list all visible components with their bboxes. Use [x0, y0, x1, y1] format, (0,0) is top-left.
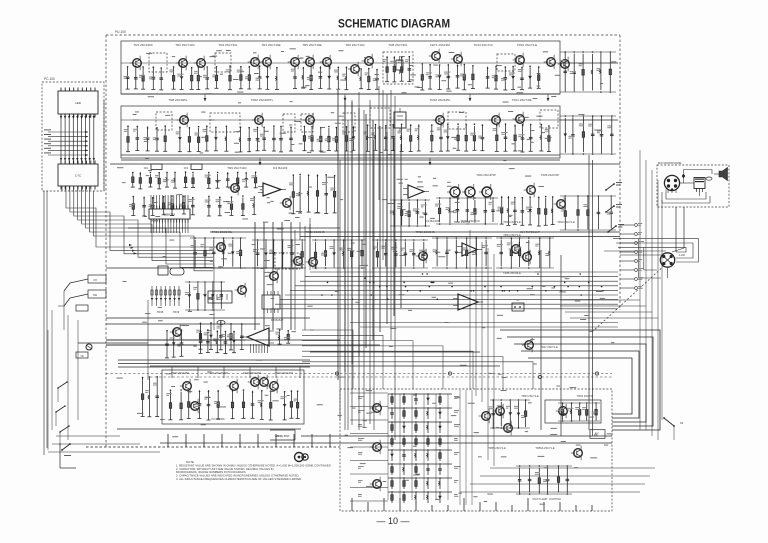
squelch bank 5: [432, 237, 492, 269]
transistor Q-mix3: [479, 184, 492, 200]
VR trimmer box lower: [76, 305, 88, 311]
transistor Q-if5: [489, 113, 501, 128]
meter lamp L1: [86, 344, 92, 350]
svg-text:TR4 2SC710E: TR4 2SC710E: [261, 43, 280, 47]
center-to-bottom L wires: [302, 330, 533, 389]
wire junction dots: [321, 273, 604, 300]
detector bank 2b: [205, 195, 257, 216]
transistor Q-if3: [303, 113, 315, 128]
svg-text:CF1: CF1: [144, 167, 149, 170]
IF components bank 7: [493, 123, 551, 152]
staircase end arrows: [129, 244, 137, 255]
mic element M1: [694, 178, 705, 189]
bottom audio rail: [117, 428, 301, 430]
low horizontal rails: [106, 318, 480, 352]
transistor Q-rf5: [260, 55, 272, 70]
RF components bank 4: [291, 66, 349, 90]
transistor Q-mx3: [370, 477, 382, 492]
transistor TR46: [267, 269, 279, 284]
transistor Q-aud3: [227, 379, 239, 394]
svg-text:TR14 2SC710: TR14 2SC710: [473, 43, 492, 47]
IF components bank 6: [430, 123, 485, 152]
transistor Q-rf3: [194, 56, 206, 71]
RF components bank 2: [169, 65, 218, 89]
transistor Q-rf11: [429, 49, 441, 64]
edge connector pins: [620, 223, 644, 289]
IF transformer T4c: [283, 114, 295, 132]
IF transformer T2: [215, 53, 231, 72]
row4 right labels 2: [454, 220, 575, 224]
pilot labels: [533, 498, 561, 501]
matrix left labels: [358, 396, 365, 497]
display-to-PLL staircase wires: [66, 191, 213, 271]
svg-text:TR26 2SC1675P: TR26 2SC1675P: [476, 173, 496, 177]
TX-RX switch bank S4: [605, 182, 624, 233]
center vertical bus B: [379, 86, 395, 440]
transistor Q-mx2: [370, 440, 382, 455]
RF row transistor labels: [133, 43, 537, 47]
mic box wires: [662, 170, 719, 204]
transistor TR32b: [306, 255, 318, 270]
transistor TR37: [170, 325, 182, 340]
IF row ground rail: [121, 154, 560, 156]
left bottom wires: [48, 436, 160, 452]
transistor Q-aud1: [180, 379, 192, 394]
IC IC11 driver: [58, 161, 98, 190]
notes text block: [176, 460, 331, 481]
svg-text:TR6 2SC710C: TR6 2SC710C: [345, 43, 365, 47]
audio left bank: [141, 376, 160, 417]
modulator dashed box: [275, 253, 300, 269]
transistor Q-aud2: [188, 399, 200, 414]
detector bank 1a: [131, 171, 195, 189]
squelch bank 1: [190, 237, 246, 269]
crystal filter components: [383, 56, 411, 82]
mic level ellipse: [706, 177, 712, 180]
svg-text:IC3 BA403: IC3 BA403: [425, 219, 440, 223]
svg-text:LED: LED: [75, 101, 82, 105]
dashed wire run: [86, 446, 338, 448]
detector bank 1b: [129, 195, 195, 216]
ladder right bank: [185, 281, 225, 311]
ANT relay box: [590, 430, 605, 439]
channel selector switch S1: [58, 275, 106, 330]
svg-text:TR36 2SO34-E: TR36 2SO34-E: [503, 271, 521, 275]
svg-text:PILOT LAMP: PILOT LAMP: [533, 498, 548, 501]
pa bank 2: [558, 402, 600, 422]
transistor TR24: [524, 183, 536, 198]
svg-text:TR30 2SC716: TR30 2SC716: [454, 220, 471, 224]
transistor Q-mix1: [447, 184, 460, 200]
IF row outline box: [121, 106, 560, 158]
xtal filter box 2: [208, 291, 232, 303]
VR trimmer box upper: [76, 352, 88, 358]
IF components bank 4: [302, 126, 355, 151]
squelch bank 3: [312, 239, 366, 269]
transistor TR45: [235, 283, 247, 298]
svg-text:IC1 BA403: IC1 BA403: [273, 166, 288, 170]
preamp feed bank: [196, 321, 244, 350]
row4 right labels 4: [503, 271, 521, 275]
audio labels: [171, 371, 293, 375]
PLL IC pin wires: [151, 195, 188, 233]
pilot bank: [516, 465, 572, 495]
dashed bus upper: [106, 373, 612, 375]
RF components bank 3: [226, 65, 279, 90]
left long wires: [48, 310, 78, 450]
IF components bank 2: [176, 125, 229, 151]
microphone dashed box: [657, 165, 729, 207]
RF signal path wire: [121, 62, 560, 64]
op-amp IC5: [457, 243, 482, 256]
audio pre bank 1: [199, 329, 236, 353]
transistor Q-if1: [177, 113, 189, 128]
svg-text:TR43 2SC1973: TR43 2SC1973: [275, 371, 293, 375]
svg-text:CH: CH: [93, 279, 97, 282]
svg-text:SCHEMATIC DIAGRAM: SCHEMATIC DIAGRAM: [338, 17, 450, 31]
transistor Q-rf10: [348, 62, 360, 77]
audio pre bank 2: [275, 329, 290, 344]
IF transformer T1: [149, 53, 167, 72]
svg-text:J-202: J-202: [679, 254, 686, 257]
bottom connector stubs: [168, 434, 592, 511]
svg-text:S3: S3: [680, 421, 684, 425]
center vertical bus A: [340, 92, 374, 430]
IC IC2 MB8719 PLL: [149, 206, 190, 223]
svg-text:PU-100: PU-100: [115, 30, 126, 34]
ceramic filter CF1: [151, 164, 162, 170]
transistor Q-pa1: [479, 409, 491, 424]
IC IC10 display: [58, 88, 98, 118]
squelch bank 6: [496, 237, 554, 269]
connector loop wiring: [613, 239, 699, 262]
svg-text:TR54 2SC735: TR54 2SC735: [577, 394, 594, 398]
RF components bank 7: [486, 65, 541, 90]
transistor Q-rf1: [130, 56, 142, 71]
svg-text:TR39: TR39: [173, 310, 180, 314]
svg-text:FET1 2SK19M: FET1 2SK19M: [430, 43, 450, 47]
op-amp IC7: [453, 294, 483, 310]
IF components bank 1: [124, 125, 167, 151]
IF transformer T3: [497, 54, 515, 71]
transistor Q-mix2: [462, 184, 475, 200]
svg-text:TR24 2SC71-E: TR24 2SC71-E: [503, 220, 521, 224]
transistor TR15: [228, 181, 240, 196]
IF transformer T5: [370, 108, 390, 128]
IF transformer T4e: [343, 113, 355, 132]
RF row ground rail: [121, 93, 560, 95]
svg-text:TR47 2SC71-E: TR47 2SC71-E: [540, 345, 558, 349]
svg-text:TR8 2SC945L: TR8 2SC945L: [168, 98, 187, 102]
crystal X1: [396, 60, 403, 70]
transistor Q-rf4: [248, 55, 260, 70]
transistor Q-rf7: [303, 55, 315, 70]
vol control wires: [270, 430, 295, 440]
NF unit IC7 box: [262, 291, 280, 313]
inter-row arrows: [204, 94, 550, 165]
transistor TR31: [214, 240, 226, 255]
squelch bank 2: [252, 239, 306, 269]
transistor Q-aud4: [248, 375, 260, 390]
lower long rails: [160, 436, 612, 443]
pa bank 1: [489, 399, 530, 429]
op-amp IC4 TA7310: [403, 185, 429, 198]
PA stage box: [545, 400, 601, 423]
transistor Q-pa4: [556, 404, 568, 419]
svg-text:TR3 2SC733L: TR3 2SC733L: [218, 43, 237, 47]
svg-text:TR29 2SC71-E: TR29 2SC71-E: [557, 220, 575, 224]
transistor Q-pa2: [493, 404, 505, 419]
display box vertical wires: [44, 100, 104, 455]
row3 labels: [227, 166, 287, 170]
row3 center labels: [425, 219, 480, 223]
speaker SP1: [719, 168, 728, 181]
svg-text:TR16 2SC71-E: TR16 2SC71-E: [517, 43, 537, 47]
audio bank 2: [231, 389, 273, 420]
audio bank 3: [280, 390, 299, 420]
RF components bank 1: [123, 66, 163, 90]
transistor Q-rf2: [176, 56, 188, 71]
main board dashed border: [86, 35, 620, 447]
display segment wires with arrows: [60, 114, 95, 164]
ladder label: [157, 310, 180, 314]
transistor Q-pa5: [571, 446, 583, 461]
svg-text:FET9 2SC1969: FET9 2SC1969: [243, 371, 261, 375]
RF components bank 5: [359, 68, 379, 90]
row4 right labels 3: [503, 233, 521, 237]
fan extension lines: [350, 323, 618, 328]
transistor Q-rf12: [451, 52, 463, 67]
right vertical bus: [640, 150, 662, 440]
svg-text:TR40 2SC1960: TR40 2SC1960: [171, 371, 189, 375]
svg-text:MIC MICROPHONE: MIC MICROPHONE: [658, 161, 682, 165]
svg-text:TR28 2SA673P: TR28 2SA673P: [541, 173, 559, 177]
op-amp IC3: [258, 183, 286, 196]
svg-text:TR53 2SC71-E: TR53 2SC71-E: [521, 394, 539, 398]
IF transformer T4: [156, 112, 172, 130]
svg-text:TR8 2SC730L: TR8 2SC730L: [388, 43, 407, 47]
IF signal path wire: [121, 119, 560, 121]
audio bank 1: [166, 389, 220, 420]
function switch S2 bank: [55, 381, 70, 446]
svg-text:CF2: CF2: [184, 167, 189, 170]
svg-text:TR55 2SC71-E: TR55 2SC71-E: [488, 446, 506, 450]
relay unit box: [512, 303, 524, 311]
RF row outline box: [121, 41, 560, 94]
crystal filter X1 box: [383, 52, 413, 84]
mixer bank: [435, 197, 498, 225]
component value smudges: [133, 50, 560, 267]
svg-text:PC-100: PC-100: [44, 77, 55, 81]
svg-text:TR56A 2SC71-E: TR56A 2SC71-E: [535, 446, 554, 450]
transistor TR33: [416, 249, 428, 264]
squelch bank 4: [372, 239, 428, 269]
pa labels 2: [488, 446, 555, 450]
svg-text:TR1 2SC1900: TR1 2SC1900: [133, 43, 152, 47]
transistor Q-rf14: [544, 55, 556, 70]
transistor Q-pa3: [501, 421, 513, 436]
agc bank: [498, 196, 555, 226]
microphone connector J1: [664, 175, 679, 190]
IF right extension bank: [560, 115, 616, 155]
transistor Q-rf13: [513, 53, 525, 68]
svg-text:VR: VR: [80, 355, 84, 358]
horizontal rail lines: [106, 63, 620, 366]
IC6 pin wires: [250, 344, 267, 353]
resistor-diode ladder array: [151, 286, 181, 306]
IF transformer T4d: [301, 114, 313, 132]
transistor Q-aud5: [257, 375, 269, 390]
right horizontal runs: [560, 251, 666, 318]
transistor Q-mx1: [370, 401, 382, 416]
IF transformer T5b: [448, 112, 466, 129]
transistor TR34: [509, 242, 521, 257]
RF right extension bank: [560, 51, 616, 93]
transistor Q-rf6: [288, 55, 300, 70]
xtal unit box: [394, 112, 406, 128]
row4 labels: [212, 230, 540, 234]
transistor Q-if6: [513, 112, 525, 127]
svg-text:SW: SW: [93, 294, 98, 297]
svg-text:MB8719: MB8719: [164, 212, 176, 216]
transistor TR32: [291, 254, 303, 269]
transistor TR25: [554, 197, 566, 212]
matrix row feed wires: [350, 393, 388, 501]
svg-text:— 10 —: — 10 —: [376, 516, 409, 526]
dashed diagonal wire: [592, 264, 666, 332]
transistor TR36: [520, 250, 532, 265]
row3 right extension bank: [560, 195, 616, 231]
preamp left bank: [165, 330, 184, 358]
bottom wiring: [460, 468, 655, 492]
mic wire diamond bead: [682, 174, 686, 179]
svg-text:H2 2SC458: H2 2SC458: [212, 418, 226, 421]
power switch S3: [663, 417, 684, 440]
transistor TR17: [280, 196, 292, 211]
row5 vertical wires: [148, 224, 310, 380]
svg-text:TR10 2SC945TL: TR10 2SC945TL: [251, 98, 274, 102]
svg-text:C-IC: C-IC: [75, 173, 82, 177]
right vertical bus D: [470, 230, 494, 466]
svg-text:4. ALL INDUCTANCE FREQUENCIES: 4. ALL INDUCTANCE FREQUENCIES CHARACTERI…: [176, 477, 302, 481]
mid horizontal rails: [106, 160, 620, 268]
reference xtal box X2: [158, 266, 168, 275]
coupling ellipse: [217, 321, 225, 325]
svg-text:TR38: TR38: [157, 310, 164, 314]
display control fan wires: [44, 129, 88, 156]
IF components bank 3: [239, 125, 294, 152]
svg-text:TR11 2SC730L: TR11 2SC730L: [512, 98, 533, 102]
detector bank 2a: [205, 172, 258, 189]
display bottom pin wires: [62, 186, 89, 191]
transistor Q-rf15: [558, 57, 570, 72]
audio sub labels: [212, 418, 226, 421]
svg-text:TR9 2SC710C: TR9 2SC710C: [227, 166, 247, 170]
audio row outline: [162, 370, 304, 424]
channel diode matrix: [388, 393, 460, 503]
RF components bank 6: [420, 63, 475, 90]
pa labels: [521, 394, 594, 398]
display unit dashed box: [42, 82, 104, 191]
op-amp IC6 BA521: [242, 328, 274, 346]
transistor TR47: [522, 338, 534, 353]
svg-text:VOL (A) B503: VOL (A) B503: [275, 435, 290, 438]
transistor Q-rf9: [362, 54, 374, 69]
svg-text:LIGHTING: LIGHTING: [549, 498, 561, 501]
bottom-right nested wiring loops: [500, 330, 660, 430]
main horizontal wiring bus: [270, 272, 618, 309]
squelch right vertical pair: [589, 155, 593, 436]
transistor Q-aud6: [267, 379, 279, 394]
IF transformer T6: [540, 110, 558, 128]
matrix vertical bus: [388, 390, 472, 505]
mid-right verticals: [541, 250, 561, 436]
transistor Q-rf8: [320, 55, 332, 70]
annotation smudges: [116, 48, 616, 504]
IF transformer T4b: [210, 113, 240, 132]
antenna connector J2: [660, 253, 674, 267]
mic box drop wires: [675, 207, 677, 252]
detector bank 3: [289, 174, 337, 214]
transistor Q-if4: [433, 113, 445, 128]
audio box top stubs: [172, 367, 300, 378]
bottom section dashed box: [340, 389, 612, 511]
svg-text:TR5 2SC710E: TR5 2SC710E: [302, 43, 321, 47]
transistor Q-if2: [252, 113, 264, 128]
svg-text:TR10 2SC945L: TR10 2SC945L: [430, 98, 451, 102]
IF components bank 5: [363, 124, 420, 152]
meter wires: [78, 343, 310, 367]
center vertical bus C: [295, 218, 310, 330]
bottom-left switch S5: [60, 443, 76, 468]
ext speaker jack J3: [295, 453, 304, 462]
ceramic filter CF2: [191, 164, 202, 170]
central vertical bus bundle: [255, 90, 401, 380]
row4 right labels: [476, 173, 559, 177]
svg-text:TR2 2SC710C: TR2 2SC710C: [175, 43, 195, 47]
IF row transistor labels: [168, 98, 532, 102]
osc bank: [390, 199, 430, 227]
